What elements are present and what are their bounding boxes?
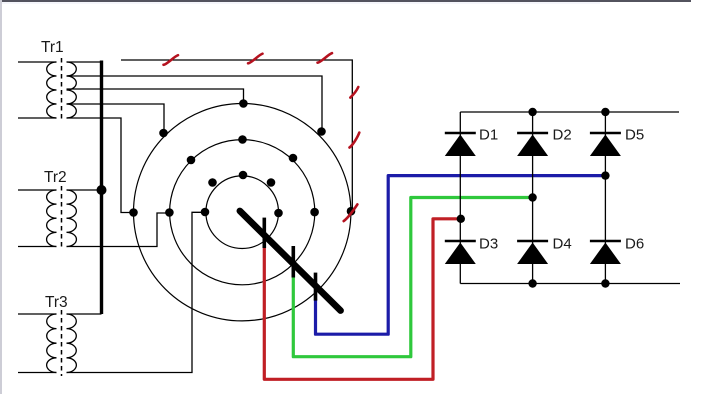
wire Tr1 tap2 to outer upper-right contact (67, 76, 323, 132)
svg-text:D1: D1 (479, 127, 498, 144)
outer ring contacts (129, 99, 355, 217)
inner ring contacts (201, 171, 283, 218)
svg-text:D2: D2 (553, 127, 572, 144)
diode D5 (590, 127, 644, 157)
diode D1 (445, 127, 498, 157)
wiper contact tick middle (291, 246, 295, 278)
bridge branch 3 wire (604, 112, 606, 284)
crossing mark 1 (164, 55, 179, 65)
bridge bottom rail (460, 283, 680, 285)
bridge branch 1 wire (459, 112, 461, 284)
junction dot blue branch3 (601, 171, 609, 179)
wire Tr1 tap3 to outer top contact (67, 89, 244, 104)
svg-text:D6: D6 (625, 236, 644, 253)
junction dot top rail branch3 (601, 108, 609, 116)
rotary switch middle ring (170, 140, 315, 285)
svg-text:Tr1: Tr1 (41, 39, 64, 56)
wiper contact tick inner (262, 218, 266, 248)
wire green to diode D4 node (293, 198, 532, 357)
rotary switch inner ring (206, 176, 279, 249)
wire Tr1 tap1 to bus (67, 61, 101, 63)
junction dot red branch1 (457, 215, 465, 223)
svg-text:D5: D5 (625, 127, 644, 144)
wire slashed top to outer right contact (121, 60, 352, 211)
transformer Tr2 (18, 186, 76, 250)
wire blue to diode D6 node (316, 176, 606, 335)
junction dot green branch2 (528, 193, 536, 201)
junction dot bus Tr2 (97, 185, 107, 195)
wire Tr3 bottom tap to inner left contact (67, 212, 206, 372)
wire Tr3 top tap to bus (67, 313, 102, 315)
svg-text:D3: D3 (479, 236, 498, 253)
transformer Tr3 (18, 310, 76, 376)
wiper contact tick outer (314, 273, 318, 301)
junction dot bottom rail branch2 (528, 279, 536, 287)
crossing mark 2 (248, 54, 263, 64)
diode D3 (445, 236, 498, 265)
wire red to diode D3 node (264, 219, 461, 379)
diode D4 (517, 236, 572, 265)
crossing mark 4 (350, 87, 358, 98)
wire Tr1 tap5 to outer left contact (67, 118, 134, 213)
bridge branch 2 wire (532, 112, 534, 284)
junction dot bottom rail branch3 (601, 279, 609, 287)
middle ring contacts (165, 135, 319, 217)
common bus wire (100, 61, 103, 315)
crossing mark 3 (318, 53, 333, 63)
wire Tr2 bottom tap to middle left contact (67, 213, 170, 247)
bridge top rail (460, 111, 679, 113)
diode D6 (590, 236, 644, 265)
diode D2 (517, 127, 572, 157)
rotary switch outer ring (134, 104, 351, 321)
junction dot top rail branch2 (528, 108, 536, 116)
crossing mark 5 (350, 133, 360, 148)
svg-text:D4: D4 (553, 236, 572, 253)
crossing mark 6 (344, 204, 358, 221)
wire Tr1 tap4 to outer upper-left contact (67, 104, 165, 133)
wire Tr2 top tap to bus (67, 189, 102, 191)
svg-text:Tr2: Tr2 (44, 169, 67, 186)
switch wiper (240, 211, 341, 311)
svg-text:Tr3: Tr3 (45, 294, 68, 311)
transformer Tr1 (18, 58, 76, 122)
